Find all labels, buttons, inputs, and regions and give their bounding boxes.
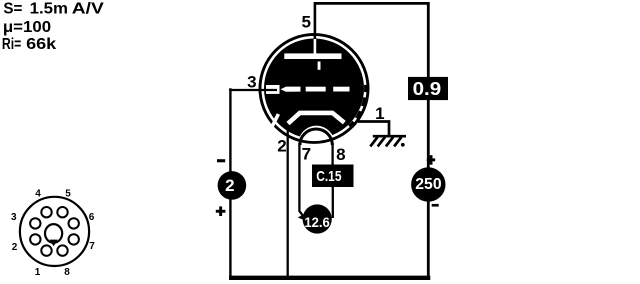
- socket pin hole 5: [57, 207, 67, 217]
- grid dash 2: [306, 87, 326, 92]
- wire: right vertical: [427, 2, 430, 278]
- ring shadow dash c: [356, 111, 360, 118]
- svg-text:5: 5: [301, 13, 310, 32]
- socket pin hole 2: [30, 234, 40, 244]
- meter box 0.9: [408, 77, 448, 100]
- anode plate: [284, 53, 341, 59]
- svg-text:A/V: A/V: [72, 1, 105, 18]
- battery 250 V (plate supply): [411, 167, 445, 201]
- cathode: [288, 113, 344, 124]
- wire: left vertical: [229, 88, 231, 278]
- socket keyway: [50, 240, 58, 247]
- svg-text:2: 2: [277, 136, 286, 155]
- socket pin hole 1: [41, 245, 51, 255]
- socket pin hole 4: [41, 207, 51, 217]
- tube V1 envelope outer circle: [260, 35, 368, 143]
- grid entry notch: [266, 85, 280, 94]
- ring shadow dash d: [349, 122, 353, 127]
- svg-text:2: 2: [12, 242, 18, 253]
- wire: top rail: [315, 2, 430, 5]
- svg-text:1.5m: 1.5m: [30, 1, 68, 18]
- ground hatch 2: [378, 137, 385, 146]
- svg-text:5: 5: [65, 188, 71, 199]
- svg-text:8: 8: [336, 145, 345, 164]
- svg-text:66k: 66k: [26, 36, 57, 53]
- svg-text:8: 8: [64, 267, 70, 278]
- battery 2 V (grid bias): [218, 171, 247, 200]
- ground lead from pin 1: [358, 122, 389, 137]
- anode lead inside (white): [314, 39, 317, 55]
- svg-text:2: 2: [225, 176, 234, 195]
- ground bar: [373, 135, 406, 138]
- svg-text:1: 1: [35, 267, 41, 278]
- parameter label S = 1.5 mA/V: [3, 1, 104, 18]
- ground hatch 4: [394, 137, 401, 146]
- wire: pin 8 heater lead lower: [332, 186, 334, 218]
- heater arch: [300, 129, 332, 145]
- socket center hole: [45, 224, 62, 243]
- grid dash 3: [333, 87, 349, 92]
- svg-text:250: 250: [415, 176, 441, 193]
- wire: pin 2 cathode lead: [287, 125, 289, 277]
- wire: bottom rail: [229, 276, 430, 280]
- socket pin hole 7: [69, 234, 79, 244]
- tube V1 white ring: [261, 36, 366, 141]
- ground hatch 3: [386, 137, 393, 146]
- socket pin hole 8: [57, 245, 67, 255]
- svg-text:6: 6: [89, 212, 95, 223]
- svg-text:7: 7: [89, 241, 95, 252]
- heater bite (white cutout): [298, 126, 335, 145]
- svg-text:12.6: 12.6: [304, 215, 330, 230]
- svg-text:S=: S=: [3, 1, 22, 18]
- ring shadow dash b: [362, 97, 364, 106]
- tube socket bottom view: outer circle: [20, 197, 89, 266]
- svg-text:4: 4: [35, 188, 41, 199]
- meter box 0.15: [312, 165, 354, 188]
- tube V1 interior black disc: [264, 39, 364, 139]
- socket pin hole 6: [69, 218, 79, 228]
- svg-text:μ=100: μ=100: [3, 19, 51, 36]
- socket pin hole 3: [30, 218, 40, 228]
- wire: pin 3 grid lead: [229, 89, 277, 91]
- svg-text:3: 3: [247, 72, 256, 91]
- parameter label Ri = 66k: [2, 36, 57, 53]
- plus sign above battery 250: [427, 155, 435, 165]
- minus sign below battery 250: [432, 204, 439, 207]
- wire: pin 8 heater lead upper: [331, 143, 333, 166]
- ground hatch 1: [370, 137, 377, 146]
- wire: pin 5 anode lead: [314, 2, 317, 39]
- ring shadow dash a: [364, 85, 367, 92]
- scan artifact slash (white): [271, 114, 279, 130]
- anode lead tick below plate: [318, 62, 321, 70]
- tube envelope redraw over bite: [260, 35, 368, 143]
- ground hatch dot: [401, 143, 405, 147]
- svg-text:C.15: C.15: [316, 168, 341, 185]
- svg-text:3: 3: [11, 212, 17, 223]
- svg-text:7: 7: [302, 144, 311, 163]
- wire: pin 7 heater lead: [299, 143, 303, 217]
- svg-text:Ri=: Ri=: [2, 36, 21, 53]
- minus sign above battery 2: [217, 159, 225, 162]
- svg-text:0.9: 0.9: [413, 79, 442, 99]
- battery 12.6 V (heater supply): [298, 204, 332, 233]
- plus sign below battery 2: [216, 206, 226, 216]
- grid dash 1 (pointed left end): [281, 87, 301, 92]
